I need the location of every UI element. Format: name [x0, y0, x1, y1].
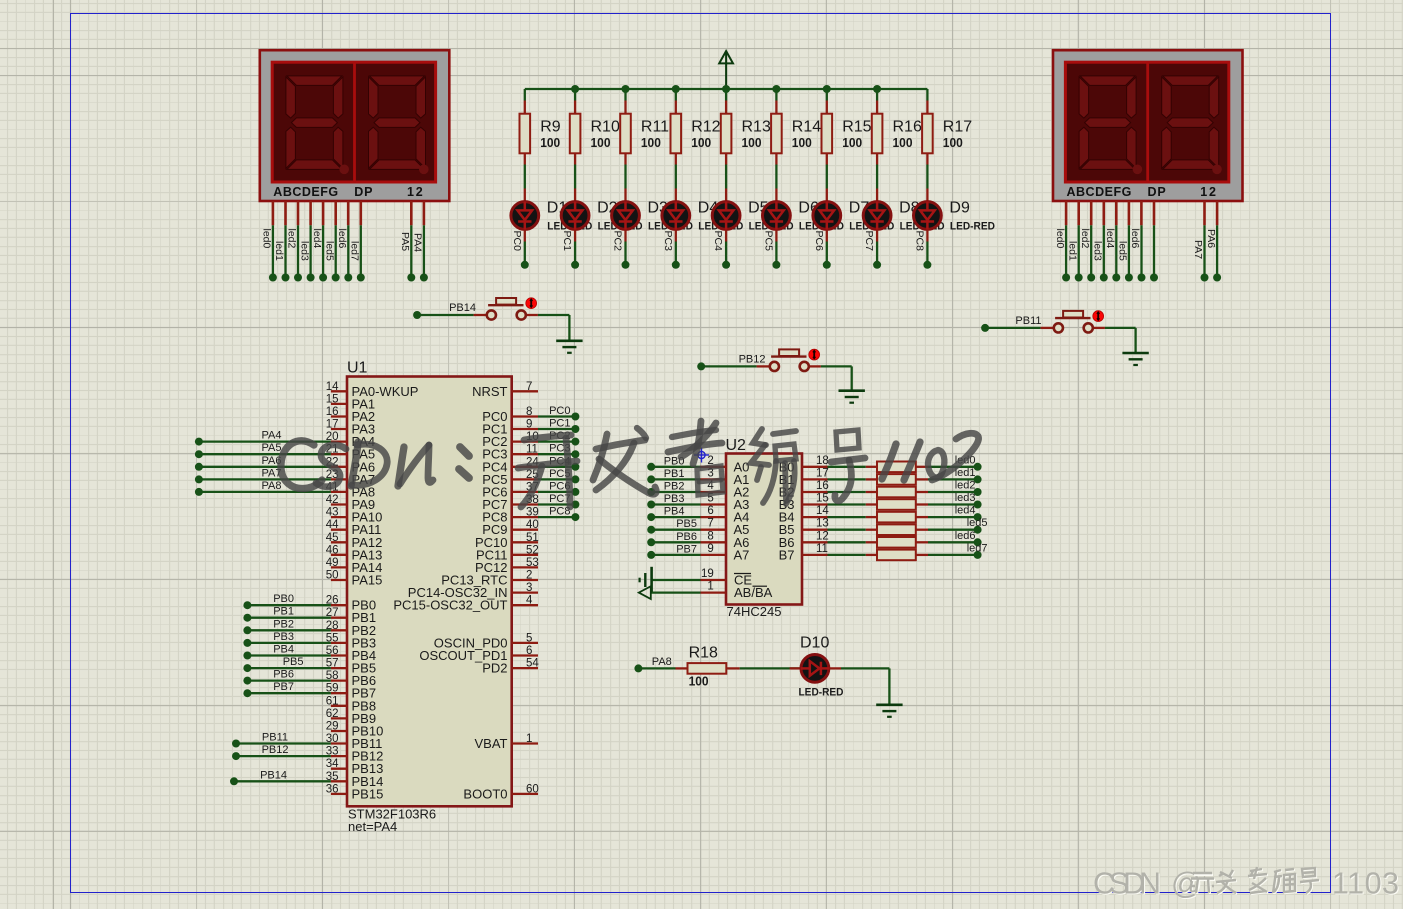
svg-text:100: 100 — [742, 136, 762, 150]
svg-text:PB1: PB1 — [273, 606, 294, 618]
svg-text:D10: D10 — [800, 635, 829, 652]
svg-text:B7: B7 — [779, 547, 795, 562]
svg-text:PB6: PB6 — [273, 669, 294, 681]
svg-text:1: 1 — [707, 581, 713, 593]
svg-text:led7: led7 — [967, 542, 988, 554]
svg-text:100: 100 — [591, 136, 611, 150]
svg-text:PB14: PB14 — [449, 302, 476, 314]
svg-text:44: 44 — [326, 519, 339, 531]
svg-text:led4: led4 — [1104, 229, 1116, 249]
svg-text:led3: led3 — [298, 241, 310, 261]
svg-text:PB6: PB6 — [676, 531, 697, 543]
svg-text:R14: R14 — [792, 119, 821, 136]
svg-text:PA5: PA5 — [399, 232, 411, 251]
svg-text:R11: R11 — [641, 119, 669, 136]
svg-text:100: 100 — [641, 136, 661, 150]
svg-text:NRST: NRST — [472, 384, 507, 399]
svg-text:BOOT0: BOOT0 — [463, 786, 507, 801]
svg-text:PC5: PC5 — [763, 231, 775, 252]
svg-text:led0: led0 — [1054, 229, 1066, 249]
svg-text:50: 50 — [326, 570, 339, 582]
svg-text:60: 60 — [526, 783, 539, 795]
svg-text:PB0: PB0 — [273, 593, 294, 605]
svg-text:6: 6 — [526, 645, 532, 657]
svg-text:9: 9 — [526, 419, 532, 431]
svg-text:8: 8 — [707, 530, 713, 542]
svg-text:PC1: PC1 — [549, 418, 570, 430]
svg-text:R17: R17 — [943, 119, 972, 136]
svg-text:PB12: PB12 — [739, 353, 766, 365]
svg-text:PB2: PB2 — [273, 618, 294, 630]
svg-text:4: 4 — [526, 595, 533, 607]
svg-text:PB7: PB7 — [273, 681, 294, 693]
svg-text:PB7: PB7 — [676, 543, 697, 555]
svg-text:led6: led6 — [1129, 229, 1141, 249]
svg-text:14: 14 — [326, 381, 339, 393]
svg-text:led4: led4 — [955, 505, 976, 517]
svg-text:led6: led6 — [336, 229, 348, 249]
svg-text:VBAT: VBAT — [475, 736, 508, 751]
svg-text:PC4: PC4 — [712, 231, 724, 252]
svg-text:36: 36 — [326, 783, 339, 795]
svg-text:A7: A7 — [734, 547, 750, 562]
svg-text:led2: led2 — [286, 229, 298, 249]
svg-text:net=PA4: net=PA4 — [348, 819, 397, 834]
svg-text:PB2: PB2 — [664, 481, 685, 493]
svg-text:13: 13 — [816, 518, 829, 530]
svg-text:D9: D9 — [949, 200, 970, 217]
svg-text:PB14: PB14 — [260, 769, 287, 781]
svg-text:U2: U2 — [726, 437, 747, 454]
svg-text:PB11: PB11 — [262, 732, 288, 744]
svg-text:PC2: PC2 — [612, 231, 624, 252]
svg-text:2: 2 — [526, 570, 532, 582]
svg-text:PB3: PB3 — [273, 631, 294, 643]
svg-text:PA5: PA5 — [262, 442, 282, 454]
svg-text:100: 100 — [842, 136, 862, 150]
svg-text:PB1: PB1 — [664, 468, 685, 480]
svg-text:PB5: PB5 — [676, 518, 697, 530]
svg-text:PA7: PA7 — [1192, 240, 1204, 259]
svg-text:PB4: PB4 — [273, 644, 294, 656]
svg-text:1103: 1103 — [1332, 867, 1399, 901]
svg-text:46: 46 — [326, 544, 339, 556]
svg-text:3: 3 — [526, 582, 532, 594]
svg-text:LED-RED: LED-RED — [950, 221, 995, 233]
svg-text:led3: led3 — [1092, 241, 1104, 261]
svg-text:100: 100 — [689, 675, 709, 689]
svg-text:100: 100 — [540, 136, 560, 150]
svg-text:PC6: PC6 — [813, 231, 825, 252]
svg-text:led6: led6 — [955, 530, 976, 542]
svg-text:9: 9 — [707, 543, 713, 555]
svg-text:8: 8 — [526, 406, 532, 418]
svg-text:R10: R10 — [591, 119, 620, 136]
svg-text:PC7: PC7 — [863, 231, 875, 252]
svg-text:PA15: PA15 — [352, 573, 383, 588]
svg-text:16: 16 — [326, 406, 339, 418]
svg-text:PC3: PC3 — [662, 231, 674, 252]
svg-text:7: 7 — [707, 518, 713, 530]
svg-text:11: 11 — [816, 543, 828, 555]
svg-text:led7: led7 — [349, 241, 361, 261]
svg-text:led0: led0 — [261, 229, 273, 249]
svg-text:7: 7 — [526, 381, 532, 393]
svg-text:100: 100 — [943, 136, 963, 150]
svg-text:42: 42 — [326, 494, 339, 506]
svg-text:61: 61 — [326, 695, 339, 707]
svg-text:led5: led5 — [323, 241, 335, 261]
svg-text:54: 54 — [526, 658, 539, 670]
svg-text:52: 52 — [526, 544, 539, 556]
svg-text:PB15: PB15 — [352, 786, 384, 801]
svg-text:led5: led5 — [967, 517, 988, 529]
svg-text:PA4: PA4 — [412, 233, 424, 252]
svg-text:6: 6 — [707, 505, 713, 517]
svg-text:PB3: PB3 — [664, 493, 685, 505]
svg-text:R9: R9 — [540, 119, 561, 136]
svg-text:led4: led4 — [311, 229, 323, 249]
svg-text:5: 5 — [526, 632, 532, 644]
svg-text:R15: R15 — [842, 119, 871, 136]
svg-text:PC0: PC0 — [549, 405, 570, 417]
svg-text:53: 53 — [526, 557, 539, 569]
svg-text:74HC245: 74HC245 — [727, 604, 782, 619]
svg-text:100: 100 — [893, 136, 913, 150]
svg-text:51: 51 — [526, 532, 539, 544]
svg-text:PB5: PB5 — [283, 656, 304, 668]
svg-text:led2: led2 — [1079, 229, 1091, 249]
svg-text:PA8: PA8 — [262, 480, 282, 492]
svg-text:49: 49 — [326, 557, 339, 569]
svg-text:PC15-OSC32_OUT: PC15-OSC32_OUT — [393, 598, 507, 613]
svg-text:29: 29 — [326, 721, 339, 733]
svg-text:led3: led3 — [955, 492, 976, 504]
svg-text:100: 100 — [792, 136, 812, 150]
svg-text:led1: led1 — [273, 241, 285, 261]
svg-text:62: 62 — [326, 708, 339, 720]
svg-text:100: 100 — [691, 136, 711, 150]
svg-text:15: 15 — [326, 393, 339, 405]
svg-text:AB/BA: AB/BA — [734, 585, 773, 600]
svg-text:43: 43 — [326, 507, 339, 519]
svg-text:led1: led1 — [1066, 241, 1078, 261]
svg-text:PA6: PA6 — [1205, 229, 1217, 248]
svg-text:17: 17 — [816, 467, 829, 479]
svg-text:15: 15 — [816, 493, 829, 505]
svg-text:PA8: PA8 — [652, 656, 672, 668]
svg-text:34: 34 — [326, 758, 339, 770]
svg-text:19: 19 — [701, 568, 714, 580]
svg-text:led2: led2 — [955, 480, 976, 492]
svg-text:CSDN: CSDN — [1093, 867, 1161, 901]
svg-text:PC0: PC0 — [511, 231, 523, 252]
svg-text:1: 1 — [526, 733, 532, 745]
svg-text:40: 40 — [526, 519, 539, 531]
svg-text:PB4: PB4 — [664, 506, 685, 518]
svg-text:45: 45 — [326, 532, 339, 544]
svg-text:R18: R18 — [689, 645, 718, 662]
svg-text:11: 11 — [526, 444, 538, 456]
svg-text:14: 14 — [816, 505, 829, 517]
svg-text:12: 12 — [816, 530, 829, 542]
svg-text:PA4: PA4 — [262, 430, 282, 442]
svg-text:PC8: PC8 — [914, 231, 926, 252]
svg-text:U1: U1 — [347, 360, 368, 377]
svg-text:PD2: PD2 — [482, 661, 507, 676]
svg-text:PC1: PC1 — [561, 231, 573, 252]
svg-text:R13: R13 — [742, 119, 771, 136]
svg-text:PB11: PB11 — [1015, 315, 1041, 327]
svg-text:led5: led5 — [1117, 241, 1129, 261]
svg-text:39: 39 — [526, 507, 539, 519]
svg-text:18: 18 — [816, 455, 829, 467]
svg-text:LED-RED: LED-RED — [799, 687, 844, 699]
svg-text:16: 16 — [816, 480, 829, 492]
svg-text:R12: R12 — [691, 119, 720, 136]
svg-text:17: 17 — [326, 419, 339, 431]
svg-text:R16: R16 — [893, 119, 922, 136]
svg-text:PB12: PB12 — [262, 744, 289, 756]
